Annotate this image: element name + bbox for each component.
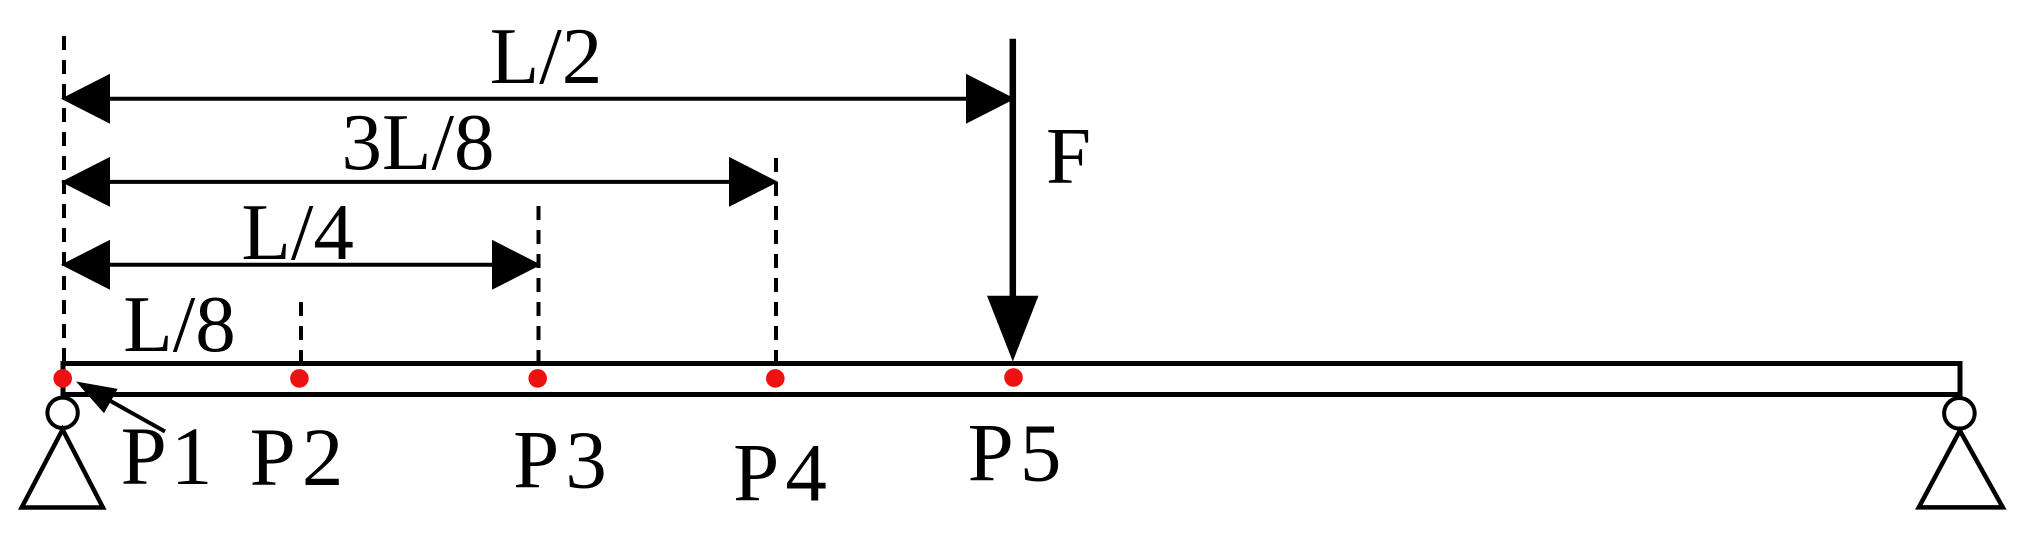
right support pin circle <box>1944 398 1975 429</box>
dashed reference line at node P2 <box>299 294 303 364</box>
svg-text:F: F <box>1046 111 1091 201</box>
dimension arrow L/2 line <box>106 97 970 101</box>
svg-text:P4: P4 <box>733 427 833 519</box>
red node dot P5 <box>1004 368 1023 387</box>
leader arrow line pointing to node P1 <box>98 394 165 432</box>
svg-text:P2: P2 <box>250 411 350 503</box>
red node dot P2 <box>290 369 309 388</box>
svg-text:P1: P1 <box>121 410 217 502</box>
dashed reference line at node P3 <box>537 206 541 364</box>
dimension arrow L/4 left arrowhead <box>61 240 110 290</box>
beam (simply supported beam body) <box>63 364 1960 395</box>
red node dot P1 <box>53 369 72 388</box>
red node dot P3 <box>528 369 547 388</box>
right support triangle <box>1919 431 2003 508</box>
force F arrowhead <box>987 296 1039 362</box>
dashed reference line at node P4 <box>774 150 778 364</box>
dimension arrow L/2 right arrowhead <box>966 74 1015 124</box>
svg-text:3L/8: 3L/8 <box>342 97 495 187</box>
dimension arrow 3L/8 line <box>106 180 733 184</box>
svg-text:L/2: L/2 <box>490 11 602 101</box>
left support pin circle <box>47 398 77 428</box>
dimension arrow 3L/8 right arrowhead <box>729 157 778 207</box>
dimension arrow L/4 line <box>106 263 496 267</box>
force F line <box>1010 39 1017 298</box>
dimension arrow 3L/8 left arrowhead <box>61 157 110 207</box>
dashed reference line at node P1 <box>62 36 66 362</box>
svg-text:L/4: L/4 <box>241 187 353 277</box>
left support triangle <box>22 430 103 508</box>
red node dot P4 <box>766 369 785 388</box>
svg-text:P5: P5 <box>968 407 1068 499</box>
dimension arrow L/2 left arrowhead <box>61 74 110 124</box>
dimension arrow L/4 right arrowhead <box>492 240 541 290</box>
leader arrowhead pointing to node P1 <box>76 382 118 414</box>
svg-text:L/8: L/8 <box>123 279 235 369</box>
svg-text:P3: P3 <box>513 414 613 506</box>
